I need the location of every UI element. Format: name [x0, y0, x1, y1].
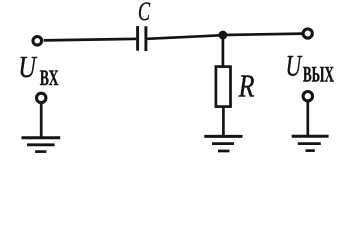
wire node to output: [223, 34, 303, 35]
wire input to capacitor: [44, 39, 137, 41]
capacitor C: [138, 26, 146, 51]
ground right: [292, 136, 329, 150]
label R: [238, 69, 255, 104]
label U_вх: [18, 49, 58, 90]
ground below resistor: [204, 136, 242, 151]
wire left terminal to ground: [40, 103, 43, 137]
svg-text:ВЫХ: ВЫХ: [303, 62, 334, 87]
svg-text:C: C: [138, 0, 150, 26]
terminal ground right: [303, 92, 312, 101]
terminal output U_vyx: [303, 29, 312, 38]
svg-text:R: R: [238, 69, 255, 104]
label U_вых: [286, 49, 334, 86]
terminal ground left: [37, 93, 46, 102]
resistor R: [216, 67, 231, 107]
wire capacitor to node: [147, 35, 223, 39]
svg-text:U: U: [18, 49, 38, 84]
ground left: [22, 138, 61, 152]
wire right terminal to ground: [306, 101, 309, 135]
terminal input U_vx: [33, 37, 42, 46]
wire node to resistor: [222, 35, 225, 66]
label C: [138, 0, 150, 26]
svg-text:U: U: [286, 49, 303, 82]
node junction: [219, 31, 228, 40]
svg-text:ВХ: ВХ: [40, 65, 59, 90]
wire resistor to ground: [222, 107, 225, 137]
